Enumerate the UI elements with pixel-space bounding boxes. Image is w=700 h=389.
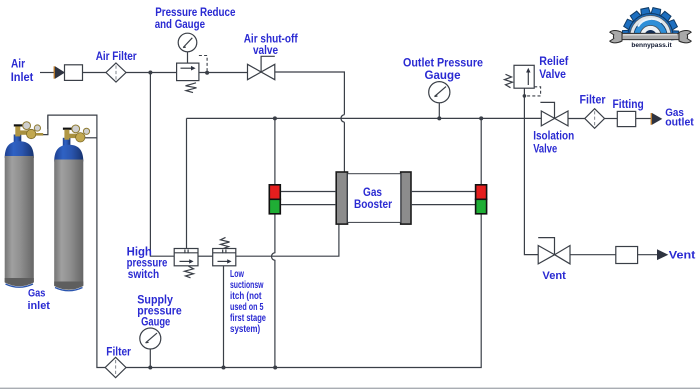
- wire down to booster top: [343, 122, 345, 172]
- svg-text:Isolation: Isolation: [533, 130, 574, 143]
- svg-text:bennypass.it: bennypass.it: [631, 42, 672, 49]
- vent valve: [538, 238, 570, 264]
- dashed pilot box of reducer: [199, 56, 207, 72]
- wire hop over main line: [341, 115, 344, 123]
- indicator left green: [269, 199, 280, 214]
- wire branch down to high pressure switch: [150, 73, 174, 257]
- svg-text:Vent: Vent: [542, 270, 566, 282]
- wire filter to regulator: [126, 72, 177, 74]
- wire between switches: [198, 255, 213, 257]
- fitting box: [617, 111, 635, 126]
- svg-text:first stage: first stage: [230, 313, 266, 324]
- svg-text:Gauge: Gauge: [425, 69, 462, 82]
- svg-text:itch (not: itch (not: [230, 291, 262, 302]
- wire low switch bottom column: [223, 266, 225, 368]
- logo bennypass gear: [622, 8, 679, 40]
- svg-text:Low: Low: [230, 269, 244, 280]
- node rail low switch junction: [222, 366, 226, 370]
- node outlet gauge junction: [437, 116, 441, 120]
- gas cylinder 2: [54, 138, 83, 291]
- spring below pressure reducer: [186, 83, 197, 93]
- node rail supply gauge junction: [148, 366, 152, 370]
- svg-text:suctionsw: suctionsw: [230, 280, 264, 291]
- regulator on cylinder 1: [14, 122, 43, 139]
- svg-text:and Gauge: and Gauge: [155, 18, 206, 31]
- wire relief valve stem: [523, 88, 525, 96]
- dashed pilot line of relief valve: [527, 87, 541, 96]
- svg-text:Filter: Filter: [106, 346, 131, 359]
- spring above low suction switch: [221, 237, 230, 248]
- gas cylinder 1: [5, 135, 34, 288]
- wire isolation valve to outlet filter: [568, 118, 585, 120]
- node relief pilot dot: [523, 94, 527, 98]
- wire right indicator column: [126, 118, 481, 367]
- wire fitting to outlet arrow: [636, 118, 651, 120]
- wire vent box to arrow: [638, 254, 657, 256]
- svg-text:Filter: Filter: [580, 94, 606, 107]
- svg-text:switch: switch: [128, 268, 159, 281]
- fitting box air inlet: [65, 65, 83, 81]
- svg-text:outlet: outlet: [665, 117, 694, 129]
- wire left indicator column with hop: [272, 118, 275, 367]
- spring left of relief valve: [505, 74, 513, 87]
- svg-text:Gas: Gas: [28, 288, 45, 300]
- isolation valve: [540, 102, 568, 126]
- relief valve RV1: [514, 65, 534, 88]
- wire filter to fitting: [605, 118, 618, 120]
- node reducer outlet junction: [205, 71, 209, 75]
- bottom border of image: [0, 388, 700, 389]
- wire booster right ports: [411, 192, 476, 205]
- svg-text:Fitting: Fitting: [613, 98, 644, 111]
- node right indicator junction: [479, 116, 483, 120]
- gas booster left end cap: [336, 172, 347, 224]
- node rail left indicator junction: [273, 366, 277, 370]
- wire reducer to shutoff valve: [199, 72, 248, 74]
- wire regulator1 tube: [43, 115, 48, 135]
- wire low switch horizontal to booster bottom: [236, 224, 339, 256]
- logo bennypass wrench: [610, 31, 691, 43]
- air shut-off valve: [248, 56, 275, 79]
- indicator left red: [269, 185, 280, 200]
- air filter diamond: [106, 63, 126, 82]
- svg-text:valve: valve: [253, 44, 279, 57]
- wire main branch down to high switch: [186, 118, 188, 248]
- node air branch junction: [148, 71, 152, 75]
- gas booster right end cap: [401, 172, 411, 224]
- high pressure switch PS1: [174, 249, 198, 266]
- outlet pressure gauge: [429, 82, 450, 119]
- wire vent branch down: [524, 96, 538, 255]
- svg-text:Relief: Relief: [539, 55, 568, 68]
- indicator right red: [476, 185, 487, 200]
- vent outlet box: [616, 247, 638, 264]
- flow arrow vent: [657, 249, 668, 260]
- low suction switch PS2: [213, 249, 236, 266]
- wire main line: [187, 117, 542, 119]
- flow arrow gas outlet: [651, 113, 663, 125]
- svg-text:Vent: Vent: [669, 250, 696, 262]
- svg-text:Gauge: Gauge: [141, 316, 171, 329]
- gas booster body: [348, 174, 401, 223]
- flow arrow air inlet: [54, 66, 65, 78]
- spring below high pressure switch: [185, 266, 194, 278]
- indicator right green: [476, 199, 487, 214]
- wire booster left ports: [280, 192, 336, 205]
- node main line left indicator junction: [273, 116, 277, 120]
- outlet filter diamond: [585, 109, 605, 129]
- wire regulator2 stub: [83, 137, 97, 139]
- svg-text:Booster: Booster: [354, 198, 392, 211]
- svg-text:inlet: inlet: [27, 300, 50, 312]
- wire filter to manifold column: [48, 115, 105, 367]
- svg-text:Valve: Valve: [533, 143, 557, 156]
- regulator on cylinder 2: [63, 125, 90, 142]
- wire to air filter: [83, 72, 107, 74]
- wire vent valve to vent box: [570, 254, 616, 256]
- svg-text:Outlet Pressure: Outlet Pressure: [403, 57, 484, 70]
- svg-text:Valve: Valve: [539, 68, 566, 81]
- pressure reducer R1: [177, 63, 199, 81]
- svg-text:system): system): [230, 324, 260, 335]
- wire shutoff valve to down corner: [275, 72, 345, 115]
- wire air inlet stub: [40, 72, 54, 74]
- svg-text:Air Filter: Air Filter: [96, 50, 137, 63]
- bottom filter diamond: [105, 357, 126, 377]
- supply pressure gauge: [140, 328, 161, 368]
- svg-text:used on 5: used on 5: [230, 302, 264, 313]
- svg-text:Inlet: Inlet: [11, 71, 34, 84]
- gauge on pressure reducer: [178, 33, 197, 63]
- svg-text:Air: Air: [11, 57, 25, 70]
